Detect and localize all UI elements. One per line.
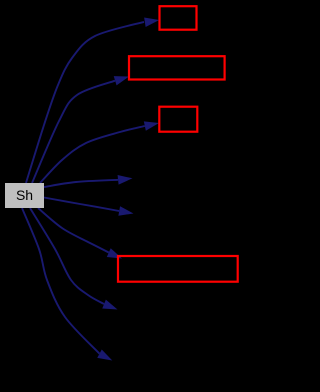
wire edge Sh->node5 [44,198,119,212]
wire edge Sh->node3 [40,126,145,183]
node Sh (current node, gray) [5,183,44,208]
arrowhead 5 [118,206,134,218]
wire edge Sh->node1 [26,22,144,183]
node box R1 (truncated, red) [160,6,197,30]
arrowhead 6 [107,248,124,263]
wire edge Sh->node2 [32,81,115,183]
node box R2 (truncated, red) [129,56,225,79]
arrowhead 8 [97,349,114,364]
wire edge Sh->node4 [44,180,118,187]
wire edge Sh->node8 [22,208,100,354]
wire edge Sh->node6 [38,208,109,253]
arrowhead 3 [144,118,160,130]
arrowhead 2 [114,72,131,85]
svg-text:Sh: Sh [16,187,33,203]
node box R4 (truncated, red) [118,256,238,282]
arrowhead 7 [102,300,119,314]
arrowhead 4 [118,174,133,185]
arrowhead 1 [144,15,160,27]
node box R3 (truncated, red) [159,107,197,132]
wire edge Sh->node7 [30,208,104,304]
